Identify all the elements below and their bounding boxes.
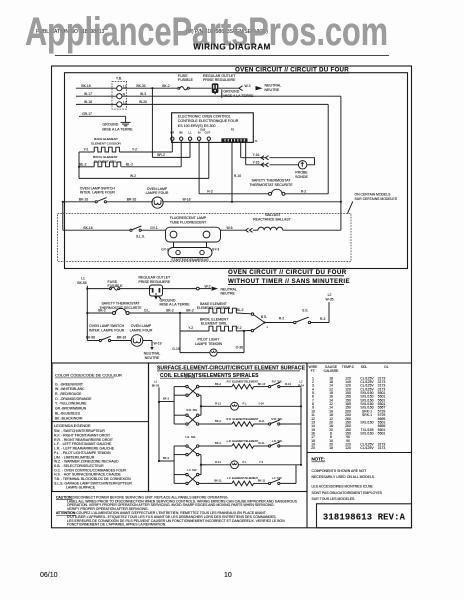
svg-text:T.B.: T.B. xyxy=(116,77,122,81)
svg-text:P2: P2 xyxy=(231,127,235,131)
svg-text:GROUND: GROUND xyxy=(102,123,118,127)
selector switch S.S. xyxy=(266,308,329,323)
svg-text:10: 10 xyxy=(224,572,232,579)
starter box xyxy=(161,242,219,262)
svg-text:O.C. - OVEN CONTROL/COMMANDES: O.C. - OVEN CONTROL/COMMANDES FOUR xyxy=(54,468,127,472)
svg-text:L1: L1 xyxy=(81,277,85,281)
node L1 feed xyxy=(77,277,88,341)
svg-text:J1: J1 xyxy=(255,139,258,143)
svg-text:318198613 REV:A: 318198613 REV:A xyxy=(323,512,406,522)
svg-text:IN: IN xyxy=(198,131,201,135)
wire L1 in BK-16 xyxy=(76,84,117,88)
svg-text:L.F. ELEMENT/ELEMENT: L.F. ELEMENT/ELEMENT xyxy=(227,476,259,480)
svg-text:W-18: W-18 xyxy=(183,197,191,201)
svg-text:BK-2: BK-2 xyxy=(215,382,221,386)
svg-text:BK-3: BK-3 xyxy=(163,456,169,460)
svg-text:G-19: G-19 xyxy=(172,347,180,351)
svg-text:FUSIBLE: FUSIBLE xyxy=(178,78,194,82)
svg-text:R-11: R-11 xyxy=(259,419,265,423)
fuse F2 xyxy=(87,280,151,290)
bake/broil selector B.S. xyxy=(251,313,268,332)
svg-text:R.F. ELEMENT/ELEMENT: R.F. ELEMENT/ELEMENT xyxy=(227,379,259,383)
svg-text:3173: 3173 xyxy=(378,446,386,450)
svg-text:SONT PAS OBLIGATOIREMENT EMPLO: SONT PAS OBLIGATOIREMENT EMPLOYES xyxy=(312,491,383,495)
svg-text:SUR TOUS LES MODELES.: SUR TOUS LES MODELES. xyxy=(312,497,356,501)
svg-text:O.L.: O.L. xyxy=(144,309,150,313)
ground label at outlet 2 xyxy=(159,297,191,307)
oven lamp switch 2 xyxy=(86,324,131,341)
legend divider xyxy=(52,421,149,423)
svg-text:R.R. ELEMENT/ELEMENT: R.R. ELEMENT/ELEMENT xyxy=(226,417,259,421)
svg-text:GY-2: GY-2 xyxy=(161,248,169,252)
svg-text:120: 120 xyxy=(345,446,351,450)
header rule xyxy=(55,54,389,56)
wire neutral annotation 2 xyxy=(163,284,237,295)
svg-text:BK-55: BK-55 xyxy=(77,281,86,285)
svg-text:R-2: R-2 xyxy=(279,317,285,321)
svg-text:GR.-BROWN/BRUN: GR.-BROWN/BRUN xyxy=(55,407,87,411)
wire W-18 to junctions xyxy=(62,197,342,203)
svg-text:L1: L1 xyxy=(189,131,192,135)
node L1 surface xyxy=(152,380,160,463)
table bottom rule xyxy=(307,452,412,454)
svg-text:SONDE: SONDE xyxy=(295,175,308,179)
legend box xyxy=(52,363,149,492)
svg-text:BK-13: BK-13 xyxy=(258,382,266,386)
svg-text:W-3: W-3 xyxy=(244,84,250,88)
svg-text:Y-3: Y-3 xyxy=(259,460,263,464)
outer border xyxy=(52,66,412,528)
svg-text:BK-2: BK-2 xyxy=(98,309,106,313)
dashed box on certain models xyxy=(58,214,352,262)
svg-text:W-2: W-2 xyxy=(130,174,136,178)
safety thermostat 2 xyxy=(87,302,209,315)
svg-text:SXL/150: SXL/150 xyxy=(360,420,373,424)
wire probe Y-15 xyxy=(246,142,269,167)
svg-text:SXL/150: SXL/150 xyxy=(360,432,373,436)
svg-text:R-3: R-3 xyxy=(320,317,326,321)
svg-text:WITHOUT TIMER // SANS MINUTERI: WITHOUT TIMER // SANS MINUTERIE xyxy=(228,278,350,285)
svg-text:NOTE:: NOTE: xyxy=(312,457,325,462)
svg-text:BK-3: BK-3 xyxy=(163,397,169,401)
svg-text:BL-2: BL-2 xyxy=(236,308,243,312)
svg-text:GY-1: GY-1 xyxy=(150,226,158,230)
wire pin5 stub xyxy=(208,140,210,178)
svg-text:L2: L2 xyxy=(328,293,332,297)
color code list xyxy=(55,382,92,420)
svg-text:R.R. SW.: R.R. SW. xyxy=(186,408,197,412)
row3 R.R. element xyxy=(207,406,301,426)
svg-text:BK-16: BK-16 xyxy=(81,84,90,88)
svg-text:L.R. SW.: L.R. SW. xyxy=(185,435,196,439)
svg-text:BK: BK xyxy=(179,131,183,135)
svg-text:R-2: R-2 xyxy=(207,189,213,193)
wire N in W-17 xyxy=(76,92,117,96)
svg-text:OVEN CIRCUIT // CIRCUIT DU FOU: OVEN CIRCUIT // CIRCUIT DU FOUR xyxy=(235,66,349,73)
svg-text:ES 100 ERV(S) ES 300: ES 100 ERV(S) ES 300 xyxy=(178,124,216,128)
svg-text:NEUTRE: NEUTRE xyxy=(221,292,236,296)
svg-text:R-10: R-10 xyxy=(234,174,241,178)
wire pin4 R-2 to thermostat xyxy=(199,140,268,193)
svg-text:B.S.: B.S. xyxy=(261,315,267,319)
switch block R.F./R.R. xyxy=(159,375,207,425)
wire L2 in W-18 xyxy=(76,100,117,104)
surface circuit titles xyxy=(157,366,306,379)
svg-text:LAMPE FOUR: LAMPE FOUR xyxy=(146,191,169,195)
top section title OVEN CIRCUIT // CIRCUIT DU FOUR xyxy=(235,66,349,73)
svg-text:BL-2: BL-2 xyxy=(126,162,133,166)
svg-text:NEUTRE: NEUTRE xyxy=(145,356,160,360)
svg-text:DL: DL xyxy=(384,365,388,369)
switch S.L.S. xyxy=(130,226,166,239)
svg-text:BR-16: BR-16 xyxy=(127,197,137,201)
svg-text:5501: 5501 xyxy=(378,432,386,436)
node L1 junction xyxy=(151,87,153,89)
svg-text:R.F. SW.: R.F. SW. xyxy=(185,375,196,379)
svg-text:GY-3: GY-3 xyxy=(212,248,220,252)
svg-text:FT.: FT. xyxy=(311,369,316,373)
bake element 2 xyxy=(197,302,251,314)
svg-text:P.L. - PILOT LIGHT/LAMPE TEMOI: P.L. - PILOT LIGHT/LAMPE TEMOIN xyxy=(54,451,111,455)
wire W-3 neutral annotation xyxy=(218,83,281,91)
svg-text:TEMP.C: TEMP.C xyxy=(342,365,355,369)
wire W-6 arrows xyxy=(221,226,259,233)
broil element xyxy=(79,155,181,167)
svg-text:R.R. SW.: R.R. SW. xyxy=(271,417,282,421)
row2 pilot P.L. xyxy=(207,402,301,411)
color code title xyxy=(55,372,122,378)
svg-text:W-35: W-35 xyxy=(326,298,334,302)
top section inset box xyxy=(65,73,408,269)
broil element 2 xyxy=(180,313,251,353)
svg-text:BR: BR xyxy=(170,131,174,135)
probe sonde xyxy=(270,158,315,179)
row5 pilot P.L. 2 xyxy=(207,460,301,469)
wire P2 R-10 down xyxy=(232,142,241,202)
wire L1 out BK-30 to fuse xyxy=(122,84,178,88)
svg-text:BK-55: BK-55 xyxy=(152,383,160,387)
bake element xyxy=(79,137,172,152)
svg-text:LEGEND/LEGENDE: LEGEND/LEGENDE xyxy=(54,423,91,428)
caution paragraph xyxy=(56,495,298,526)
svg-text:R-13: R-13 xyxy=(215,460,221,464)
svg-text:OUT: OUT xyxy=(205,131,211,135)
switch block L.R./L.F. xyxy=(159,435,207,485)
wire probe Y-16 xyxy=(241,142,269,160)
oven lamp xyxy=(146,187,169,208)
components note FR xyxy=(312,485,383,501)
svg-text:S.S.: S.S. xyxy=(302,308,308,312)
svg-text:OVEN CIRCUIT // CIRCUIT DU FOU: OVEN CIRCUIT // CIRCUIT DU FOUR xyxy=(228,269,347,276)
svg-text:WIRING DIAGRAM: WIRING DIAGRAM xyxy=(193,43,270,52)
svg-text:GROUND: GROUND xyxy=(223,89,239,93)
svg-text:TUBE FLUORESCENT: TUBE FLUORESCENT xyxy=(170,220,207,224)
svg-text:18: 18 xyxy=(329,446,333,450)
control terminals pins xyxy=(171,137,211,140)
svg-text:W-11: W-11 xyxy=(258,441,265,445)
svg-text:Y-2: Y-2 xyxy=(188,326,193,330)
components note EN xyxy=(312,469,376,479)
svg-text:W-19: W-19 xyxy=(154,341,162,345)
connector P2 hatched xyxy=(221,138,257,143)
regular outlet xyxy=(203,74,236,95)
svg-text:Y-2: Y-2 xyxy=(237,326,242,330)
wire to neutral arrow xyxy=(143,341,162,360)
svg-text:BK-16: BK-16 xyxy=(79,197,88,201)
svg-text:REACTANCE BALLAST: REACTANCE BALLAST xyxy=(253,218,292,222)
wire table rows xyxy=(311,376,385,450)
wire fluorescent feed xyxy=(63,202,130,230)
svg-text:R-13: R-13 xyxy=(285,382,291,386)
svg-text:W-17: W-17 xyxy=(84,92,92,96)
oven lamp switch xyxy=(63,186,153,203)
svg-text:L.R. ELEMENT/ELEMENT: L.R. ELEMENT/ELEMENT xyxy=(227,439,259,443)
svg-text:Y-15: Y-15 xyxy=(253,160,260,164)
svg-text:W-6: W-6 xyxy=(226,226,232,230)
middle section title xyxy=(228,269,350,285)
ground symbol xyxy=(102,122,133,131)
svg-text:L1: L1 xyxy=(154,380,157,384)
ballast coil xyxy=(253,213,341,230)
svg-text:ELECTRONIC OVEN CONTROL: ELECTRONIC OVEN CONTROL xyxy=(178,114,231,118)
svg-text:SDL: SDL xyxy=(361,365,368,369)
svg-text:LAMPE TEMOIN: LAMPE TEMOIN xyxy=(195,342,222,346)
svg-text:Y-2: Y-2 xyxy=(83,147,88,151)
svg-text:W-2: W-2 xyxy=(204,284,210,288)
svg-text:LAMPE-SURFACE: LAMPE-SURFACE xyxy=(66,486,96,490)
wire GR-17 ground run xyxy=(79,112,126,123)
svg-text:T.B. - TERMINAL BLOCK/BLOC DE: T.B. - TERMINAL BLOCK/BLOC DE CONNEXION xyxy=(54,477,131,481)
svg-text:BK-30: BK-30 xyxy=(136,84,145,88)
svg-text:W-3: W-3 xyxy=(140,92,146,96)
svg-text:W.Z. - WARMER ZONE/ZONE RECHAU: W.Z. - WARMER ZONE/ZONE RECHAUD xyxy=(54,460,119,464)
wire BR-2 from L1 vertical xyxy=(152,88,190,157)
svg-text:R.F. SW.: R.F. SW. xyxy=(272,379,283,383)
fuse F1 xyxy=(178,74,212,90)
wire table header xyxy=(309,365,389,373)
publication header text xyxy=(36,29,268,35)
svg-text:06/10: 06/10 xyxy=(40,572,58,579)
svg-text:PRISE REGULIERE: PRISE REGULIERE xyxy=(139,280,171,284)
safety thermostat xyxy=(249,179,328,196)
svg-text:P.L.: P.L. xyxy=(243,402,248,406)
surface element box xyxy=(149,363,308,492)
part number box xyxy=(317,504,412,528)
oven lamp 2 xyxy=(130,324,153,346)
svg-text:BK-2: BK-2 xyxy=(215,441,221,445)
wire pin3 to W-2 xyxy=(189,140,191,157)
svg-text:G. -GREEN/VERT: G. -GREEN/VERT xyxy=(55,382,84,386)
wire pin2 to broil xyxy=(180,140,182,166)
svg-text:MISE A LA TERRE: MISE A LA TERRE xyxy=(102,127,133,131)
svg-text:COLOR CODE/CODE DE COULEUR: COLOR CODE/CODE DE COULEUR xyxy=(55,372,122,377)
svg-text:R.F. - RIGHT FRONT/AVANT DROIT: R.F. - RIGHT FRONT/AVANT DROIT xyxy=(54,434,111,438)
svg-text:CONTROLE ELECTRONIQUE FOUR: CONTROLE ELECTRONIQUE FOUR xyxy=(178,119,239,123)
svg-text:NECESSARILY USED ON ALL MODELS: NECESSARILY USED ON ALL MODELS. xyxy=(312,475,376,479)
svg-text:BK.-BLACK/NOIR: BK.-BLACK/NOIR xyxy=(55,416,83,420)
divider under middle section xyxy=(52,362,412,364)
right column divider xyxy=(306,363,308,528)
svg-text:CL/125V: CL/125V xyxy=(360,446,374,450)
node L2 xyxy=(326,293,334,323)
svg-text:L.F. - LEFT FRONT/AVANT GAUCHE: L.F. - LEFT FRONT/AVANT GAUCHE xyxy=(54,442,112,446)
on certain models note xyxy=(348,192,398,213)
svg-text:BK-2: BK-2 xyxy=(215,419,221,423)
svg-text:P.L.: P.L. xyxy=(243,460,248,464)
svg-text:SRK-1: SRK-1 xyxy=(362,413,372,417)
svg-text:BL.-BLUE/BLEU: BL.-BLUE/BLEU xyxy=(55,411,81,415)
legend list xyxy=(54,429,132,490)
svg-text:CALIBRE: CALIBRE xyxy=(324,369,339,373)
svg-text:ON CERTAIN MODELS: ON CERTAIN MODELS xyxy=(355,192,392,196)
svg-text:Y. -YELLOW/JAUNE: Y. -YELLOW/JAUNE xyxy=(55,402,87,406)
fluorescent lamp xyxy=(166,216,221,242)
svg-text:20: 20 xyxy=(311,446,315,450)
svg-text:BK-56: BK-56 xyxy=(86,336,95,340)
svg-text:1: 1 xyxy=(267,325,269,329)
row4 L.R. element xyxy=(207,439,301,465)
svg-text:INTER. LAMPE FOUR: INTER. LAMPE FOUR xyxy=(89,329,125,333)
svg-text:SUR CERTAINS MODELES: SUR CERTAINS MODELES xyxy=(355,197,398,201)
svg-text:BK-11: BK-11 xyxy=(258,479,266,483)
svg-text:L2: L2 xyxy=(300,380,303,384)
ground label at outlet xyxy=(222,89,254,98)
wire W-2 to control xyxy=(79,174,209,178)
svg-text:W. -WHITE/BLANC: W. -WHITE/BLANC xyxy=(55,387,85,391)
wire left bus bake/broil xyxy=(78,152,80,178)
svg-text:INTER. LAMPE FOUR: INTER. LAMPE FOUR xyxy=(80,191,116,195)
svg-text:MISE A LA TERRE: MISE A LA TERRE xyxy=(160,303,191,307)
wire L2 corner down (vertical A) xyxy=(327,104,329,193)
svg-text:BK-16: BK-16 xyxy=(83,226,92,230)
svg-text:MISE A LA TERRE: MISE A LA TERRE xyxy=(223,94,254,98)
svg-text:L.F. SW.: L.F. SW. xyxy=(272,476,282,480)
svg-text:Y-16: Y-16 xyxy=(253,153,260,157)
svg-text:BK-2: BK-2 xyxy=(162,84,170,88)
svg-text:O-36: O-36 xyxy=(236,346,244,350)
svg-text:L.F. SW.: L.F. SW. xyxy=(187,468,197,472)
row1 R.F. element xyxy=(207,379,301,389)
svg-text:Y-2: Y-2 xyxy=(132,147,137,151)
svg-text:NEUTRAL: NEUTRAL xyxy=(265,83,282,87)
svg-text:GR-17: GR-17 xyxy=(82,112,92,116)
svg-text:ELEMENT GRIL: ELEMENT GRIL xyxy=(201,322,227,326)
svg-text:NEUTRE: NEUTRE xyxy=(265,88,280,92)
svg-text:Y-34: Y-34 xyxy=(258,402,264,406)
svg-text:STARTER/DEMARREUR: STARTER/DEMARREUR xyxy=(171,258,209,262)
svg-text:R. -RED/ROUGE: R. -RED/ROUGE xyxy=(55,392,82,396)
wire pin1 to BR-2 xyxy=(171,140,173,152)
svg-text:BK-2: BK-2 xyxy=(186,309,194,313)
svg-text:R-2: R-2 xyxy=(301,189,307,193)
svg-text:PRISE REGULIERE: PRISE REGULIERE xyxy=(203,78,236,82)
svg-text:R-13: R-13 xyxy=(215,402,221,406)
svg-text:O. -ORANGE/ORANGE: O. -ORANGE/ORANGE xyxy=(55,397,92,401)
pilot light xyxy=(172,331,244,356)
svg-text:THERMOSTAT SECURITE: THERMOSTAT SECURITE xyxy=(99,306,142,310)
svg-text:BK-11: BK-11 xyxy=(214,479,222,483)
svg-text:W-20: W-20 xyxy=(139,100,147,104)
svg-text:ELEMENT CUISSON: ELEMENT CUISSON xyxy=(91,141,121,145)
wire N out W-3 xyxy=(122,92,341,96)
svg-text:THERMOSTAT SECURITE: THERMOSTAT SECURITE xyxy=(249,183,293,187)
svg-text:BK-2: BK-2 xyxy=(166,309,174,313)
svg-text:COMPONENTS SHOWN ARE NOT: COMPONENTS SHOWN ARE NOT xyxy=(312,469,368,473)
svg-text:BR-16: BR-16 xyxy=(117,336,127,340)
svg-text:S.L.S.: S.L.S. xyxy=(136,235,145,239)
wire N corner down (vertical B) xyxy=(340,96,342,230)
svg-text:W-18: W-18 xyxy=(84,100,92,104)
svg-text:BR-2: BR-2 xyxy=(157,153,165,157)
terminal block T.B. xyxy=(112,77,127,110)
svg-text:BL-2: BL-2 xyxy=(79,162,86,166)
regular outlet 2 xyxy=(139,276,172,300)
row6 L.F. element xyxy=(207,465,296,486)
svg-text:LAMPE FOUR: LAMPE FOUR xyxy=(130,329,153,333)
svg-text:FONCTIONNEMENT DE L'APPAREIL A: FONCTIONNEMENT DE L'APPAREIL APRES LA RE… xyxy=(67,523,166,527)
svg-text:BALLAST: BALLAST xyxy=(265,213,281,217)
wire L2 out W-20 xyxy=(122,100,328,104)
electronic oven control U1 xyxy=(170,113,253,143)
svg-text:L.R. SW.: L.R. SW. xyxy=(272,439,283,443)
node L2 surface xyxy=(298,380,304,466)
svg-text:LES ACCESSOIRES MONTRES ICI,NE: LES ACCESSOIRES MONTRES ICI,NE xyxy=(312,485,374,489)
